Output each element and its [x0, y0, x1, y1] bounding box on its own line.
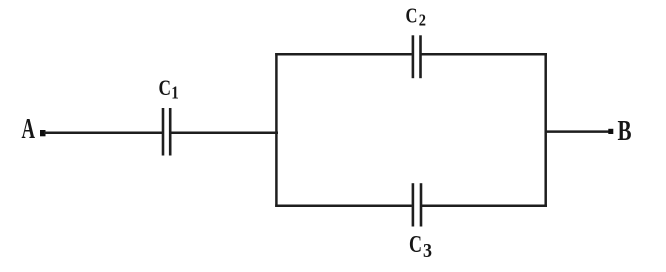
node B terminal dot — [608, 129, 613, 134]
wire A to C1 — [44, 132, 163, 135]
bottom rail right segment — [422, 204, 547, 207]
svg-text:3: 3 — [423, 240, 432, 262]
svg-text:C: C — [159, 75, 172, 100]
capacitor C3 — [413, 183, 421, 226]
label C2 — [406, 3, 427, 29]
wire C1 to box left — [171, 132, 278, 135]
wire box to B — [545, 130, 609, 133]
capacitor C2 — [413, 35, 421, 78]
top rail right segment — [422, 53, 548, 56]
svg-text:2: 2 — [419, 11, 426, 30]
node A terminal dot — [40, 130, 46, 136]
capacitor C1 — [163, 108, 170, 156]
box left vertical wire — [275, 53, 278, 207]
bottom rail left segment — [275, 204, 412, 207]
svg-text:B: B — [618, 115, 632, 147]
top rail left segment — [275, 53, 412, 56]
svg-text:1: 1 — [171, 83, 179, 103]
label C3 — [409, 232, 432, 262]
label C1 — [159, 75, 179, 103]
svg-text:C: C — [406, 3, 418, 27]
box right vertical wire — [544, 53, 547, 207]
svg-text:A: A — [22, 114, 36, 145]
svg-text:C: C — [409, 232, 422, 258]
